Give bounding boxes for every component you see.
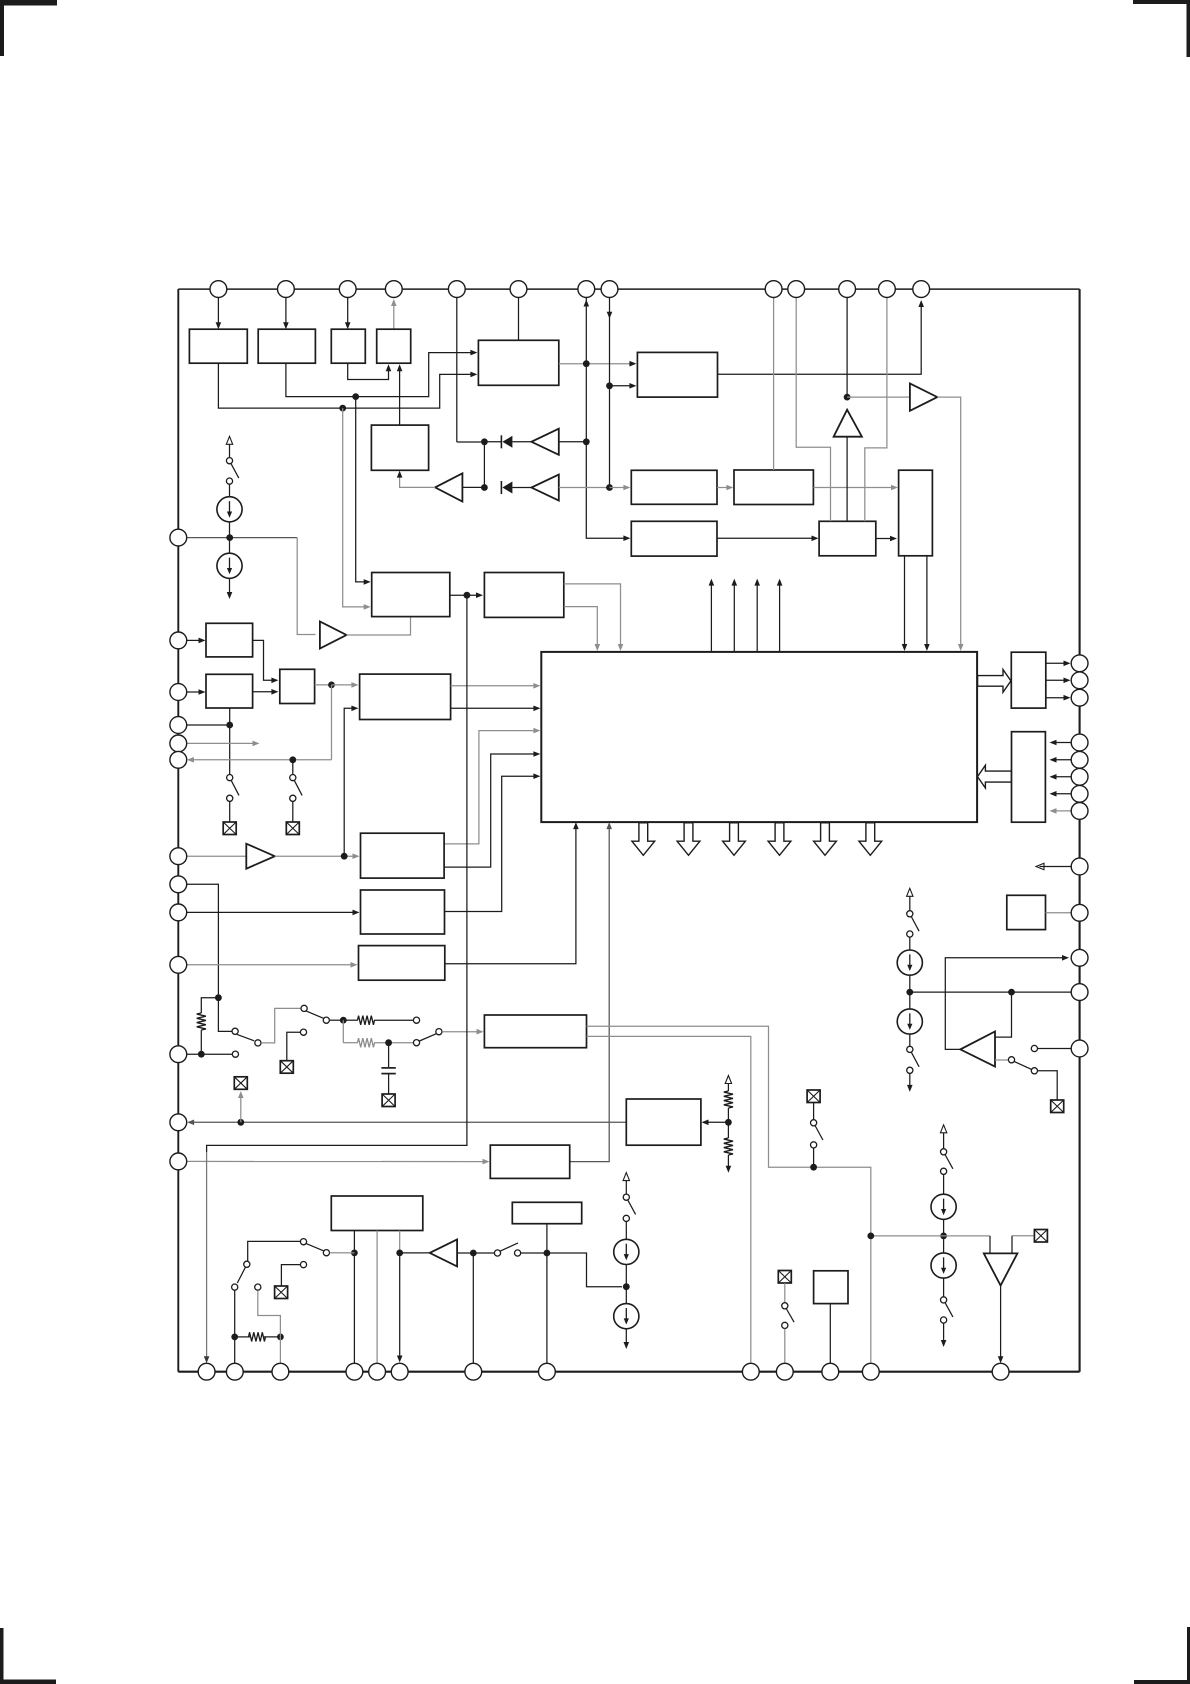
switch S8 contact b [941,1168,947,1174]
current source I8 [614,1304,639,1329]
wire resistor R2 to contact [374,1019,413,1021]
open arrow above switch S8 [943,1133,945,1149]
switch S13 contact a [811,1120,817,1126]
wire pin L6 net [191,759,332,761]
wire switch S1 to current source I1 [229,484,231,496]
switch S9 contact a [941,1297,947,1303]
open arrow above switch S1 [229,445,231,458]
switch S17 contact b [232,1284,238,1290]
wire resistor R3 to contact [374,1042,413,1044]
wire block H1 leg 2 to pin B5 [376,1231,378,1364]
wire block B7 tall to main block top 1 [904,556,906,647]
bus arrow main block to block F1 (hollow right) [978,670,1011,693]
wire pin6 to block B2 [518,298,520,341]
switch S16 throw contact [300,1239,306,1245]
wire switch S7 to terminal X3 [1038,1071,1058,1100]
wire switch S8 to current source I5 [943,1175,945,1195]
junction buffer U10 input node [470,1250,477,1257]
current source I3 [897,950,922,975]
wire block H3 to pin B11 [829,1304,831,1364]
wire block E1 output 2 to main block [444,754,536,867]
IC outline left border [177,289,179,1372]
wire pin L5 stub arrow [187,742,256,744]
block A1 [189,329,247,363]
wire block B2 output [559,363,633,365]
terminal X6 (crossed box) [280,1061,293,1074]
pin R10 [1071,904,1088,921]
block E2 [361,890,445,934]
wire divider node to block G3 [706,1121,729,1123]
pin L13 [170,1153,187,1170]
IC outline bottom rail [178,1371,1079,1373]
junction diode row upper left [481,438,488,445]
wire block F1 to pin R3 [1046,697,1067,699]
wire pin L4 to node [187,724,230,726]
IC outline top rail [178,288,1079,290]
switch S6 contact a [907,1046,913,1052]
wire resistor R6 left lead [235,1336,251,1338]
pin T7 [578,281,595,298]
switch S3 contact b [227,795,233,801]
switch S9 lever [945,1303,953,1317]
junction capacitor tap [385,1039,392,1046]
wire resistor R6 right lead [264,1336,281,1338]
terminal X5 (crossed box) [382,1094,395,1107]
wire switch S6 down arrow [909,1074,911,1086]
corner mark bottom-right [1187,1627,1190,1684]
main block hollow down arrow 4 [768,823,791,856]
diode D1 [500,435,502,448]
switch S6 lever [912,1053,920,1067]
wire block G2 output 1 (to pin B12) [587,1026,871,1363]
terminal X4 (crossed box) [1034,1230,1047,1243]
current source I5 [931,1194,956,1219]
switch S11 common [323,1017,329,1023]
terminal X3 (crossed box) [1051,1100,1064,1113]
switch S16 common [323,1250,329,1256]
wire buffer U9 output to block E1 [275,855,355,857]
wire switch S14 to current source I7 [625,1222,627,1240]
resistor R6 [249,1332,266,1341]
main block up signal 4 [779,585,781,652]
switch S8 lever [945,1155,953,1169]
switch S8 contact a [941,1149,947,1155]
wire pin R5 to block F2 [1052,759,1071,761]
wire pin L6 riser to block D4 [331,685,333,760]
junction buffer U1 at pin7 column [583,438,590,445]
block B6 [631,521,717,556]
wire switch S10 to switch S11 (jog) [261,1008,301,1043]
switch S17 alt contact [255,1284,261,1290]
junction resistor R6 right [277,1334,284,1341]
wire switch S11 to junction [330,1019,344,1021]
junction block A1 net [339,405,346,412]
switch S10 common contact [232,1028,238,1034]
pin R6 [1071,768,1088,785]
junction ladder node [340,1017,347,1024]
wire block D4 output 2 to main block [451,707,537,709]
open arrow above switch S14 [625,1181,627,1194]
wire block F1 to pin R1 [1046,662,1067,664]
junction to terminal X8 [237,1119,244,1126]
wire buffer U1 input from column [559,441,587,443]
main block up signal 3 [756,585,758,652]
wire block B8 to block B7 tall [876,538,893,540]
wire buffer U10 to junction [457,1252,473,1254]
wire inverter U6 output to block C1 bottom [347,618,411,636]
switch S15 lever [500,1243,518,1251]
wire pin1 to block A1 [217,298,219,326]
wire block D4 output 1 to main block [451,685,537,687]
diode D2 [500,481,502,494]
pin R4 [1071,734,1088,751]
wire pin L10 to block E3 [187,964,353,966]
wire block C1 long feedback to pin B1 [207,595,467,1152]
junction at pin8 column lower [606,484,613,491]
pin T11 [839,281,856,298]
wire block B7 tall to main block top 2 [926,556,928,647]
wire op-amp feedback loop to pin R11 [945,958,1065,1050]
wire pin L3 to block D2 [187,691,202,693]
junction supply rail tap [867,1233,874,1240]
wire block E2 output to main block [445,776,537,911]
wire pin L11 to contact [187,1053,233,1055]
wire node down to resistor R3 [342,1020,344,1042]
switch S12 throw b [413,1040,419,1046]
switch S6 contact b [907,1067,913,1073]
wire diode row upper [484,441,501,443]
wire block D3 output [315,684,332,686]
switch S9 contact b [941,1317,947,1323]
wire block B1 to block A4 [399,368,401,426]
open arrow above switch S5 [909,897,911,911]
wire current source I2 down arrow [229,578,231,594]
pin B4 [346,1363,363,1380]
block B3 [637,352,717,397]
junction block B2 output at column [583,360,590,367]
wire pin R4 to block F2 [1052,742,1071,744]
pin B10 [776,1363,793,1380]
switch S12 common [436,1029,442,1035]
switch S4 contact b [290,795,296,801]
wire block C2 output 1 to main block [564,584,621,647]
op-amp U7 (left-pointing) [960,1032,995,1067]
block D3 [280,669,315,703]
junction resistor tap [215,994,222,1001]
resistor R1 [197,1013,206,1030]
switch S5 lever [912,917,920,931]
pin T12 [879,281,896,298]
wire diode D1 to buffer U1 [512,441,531,443]
buffer U1 (left-pointing) [531,429,558,455]
pin T10 [788,281,805,298]
wire pin7 column [585,298,587,364]
wire switch S5 to current source I3 [909,937,911,950]
pin T3 [339,281,356,298]
vertical tie between diode rows [483,442,485,488]
pin T4 [385,281,402,298]
wire pin L9 to block E2 [187,911,355,913]
switch S17 lever [237,1268,245,1284]
block G3 [626,1099,701,1145]
wire junction to block B4 input [610,487,627,489]
switch S7 alternate contact to pin R13 [1031,1045,1037,1051]
wire capacitor C1 top [388,1043,390,1067]
switch S18 lever [787,1309,795,1322]
pin B13 [992,1363,1009,1380]
pin T9 [765,281,782,298]
pin L10 [170,956,187,973]
pin L1 [170,529,187,546]
wire pin L2 to block D1 [187,639,202,641]
main block hollow down arrow 6 [859,823,882,856]
junction divider node [725,1119,732,1126]
wire block C2 output 2 to main block [564,607,598,647]
wire pin3 to block A3 [347,298,349,326]
pin R9 [1071,858,1088,875]
current source I7 [614,1239,639,1264]
switch S14 lever [628,1200,636,1214]
wire pin R7 to block F2 [1052,793,1071,795]
buffer U2 (left-pointing) [531,475,558,501]
wire buffer U3 output to block B1 [400,474,436,487]
junction pin L4 node [226,722,233,729]
junction resistor R1 bottom [198,1051,205,1058]
resistor R2 [358,1016,375,1025]
wire to pin B1 with arrow [206,1152,208,1358]
wire pin5 elbow to diode row [457,441,481,443]
main block hollow down arrow 3 [723,823,746,856]
wire leg3 node to buffer U10 [400,1252,430,1254]
buffer U5 (right-pointing) [910,383,937,410]
main block (large) [541,652,977,822]
switch S10 throw contact [232,1051,238,1057]
pin L9 [170,904,187,921]
pin R5 [1071,751,1088,768]
junction leg1 node [351,1250,358,1257]
amplifier U4 (up-pointing) [834,410,862,437]
pin B11 [822,1363,839,1380]
wire pin2 to block A2 [285,298,287,326]
switch S13 lever [815,1126,823,1140]
switch S12 throw a [413,1017,419,1023]
wire block E3 output to main block bottom [445,826,576,964]
wire leg3 node to pin B6 [399,1253,401,1357]
block D2 [206,674,253,708]
wire current source I3 to node [909,975,911,1009]
switch S18 contact b [782,1322,788,1328]
wire pin5 input [456,298,458,443]
main block up signal 2 [733,585,735,652]
block C1 [372,573,450,617]
block B4 [631,470,717,504]
switch S14 contact b [623,1215,629,1221]
wire supply rail to comparator [871,1235,990,1237]
switch S7 lever [1014,1062,1031,1070]
wire capacitor C1 to terminal X5 [388,1074,390,1094]
wire junction to block C1 input 2 [343,408,366,607]
open arrow divider top [727,1084,729,1092]
buffer U10 (left-pointing) [430,1239,457,1266]
block G2 [484,1015,586,1048]
main block hollow down arrow 5 [814,823,837,856]
pin L2 [170,632,187,649]
pin T13 [913,281,930,298]
switch S5 contact a [907,911,913,917]
wire buffer U5 output to main block top [937,397,960,647]
terminal X7 (crossed box) [807,1090,820,1103]
wire resistor R4 to divider node [727,1108,729,1138]
wire block B6 output to block B8 [717,537,815,539]
wire pin L1 to inverter U6 [187,537,297,539]
switch S18 contact a [782,1303,788,1309]
main block hollow down arrow 2 [677,823,700,856]
wire resistor R5 down arrow [727,1155,729,1167]
block G1 [490,1145,569,1178]
current source I2 [217,553,242,578]
wire alt throw to terminal X9 [281,1265,300,1286]
wire switch S9 down arrow [943,1323,945,1341]
junction current source column [226,534,233,541]
wire current source I5 to node [943,1219,945,1253]
capacitor C1 [381,1067,395,1069]
junction pin L6 net at switch S4 [289,756,296,763]
switch S10 contact c [255,1040,261,1046]
wire node to resistor R2 [343,1019,358,1021]
wire pin7 column to block B5 [586,442,626,538]
current source I4 [897,1009,922,1034]
switch S15 contact b [515,1250,521,1256]
wire diode row lower to buffer U3 [462,486,484,488]
switch S16 alt throw contact [300,1262,306,1268]
pin B1 [198,1363,215,1380]
wire pin10 jog to block B8 top [796,298,830,522]
wire junction to block D4 [332,684,355,686]
wire amp U4 base to block B8 top [846,437,848,522]
wire junction to switch S4 [292,760,294,775]
corner mark top-left [0,0,57,6]
IC outline right border [1079,289,1081,1372]
wire block G1 output to main block bottom [570,826,610,1162]
wire switch S16 common to leg1 node [330,1252,355,1254]
wire block G2 output 2 (to pin B9) [587,1036,751,1363]
terminal X2 (crossed box) [286,822,299,835]
pin B5 [369,1363,386,1380]
wire comparator input stub 2 to terminal X4 [1011,1236,1013,1254]
block E3 [359,946,445,981]
pin R7 [1071,785,1088,802]
current source I1 [217,497,242,522]
pin L3 [170,684,187,701]
wire block B4 to block B5b [717,487,730,489]
pin B12 [862,1363,879,1380]
resistor R5 [724,1138,733,1155]
wire supply node to pin R12 [910,991,1071,993]
switch S16 lever [306,1244,323,1251]
wire current source I8 down arrow [625,1329,627,1343]
switch S3 contact a [227,775,233,781]
pin B3 [272,1363,289,1380]
wire terminal X7 to switch S13 [813,1103,815,1120]
wire junction to mid supply node [547,1253,622,1287]
block B5b [734,470,813,505]
junction diode row lower left [481,484,488,491]
bus arrow block F2 to main block (hollow left) [978,765,1012,788]
switch S14 contact a [623,1194,629,1200]
wire comparator output to pin B13 [1000,1286,1002,1358]
wire block B3 output to pin13 [718,303,922,375]
resistor R3 [358,1038,375,1047]
wire block A4 to pin4 [393,301,395,330]
inverter U6 (right-pointing) [320,622,347,649]
pin L4 [170,717,187,734]
terminal X9 (crossed box) [275,1286,288,1299]
pin B6 [391,1363,408,1380]
wire junction to block B3 input 2 [610,385,633,387]
wire current source I4 to switch S6 [909,1034,911,1046]
wire riser to inverter U6 input [297,538,315,635]
wire block A1 output net [218,363,472,408]
corner mark top-right [1133,0,1190,4]
wire diode D2 to buffer U2 [512,487,531,489]
buffer U3 (left-pointing) [435,473,462,501]
junction switch chain on sense wire [810,1164,817,1171]
pin T1 [210,281,227,298]
wire block H1 leg 1 to pin B4 [353,1231,355,1364]
wire pin L7 riser to block D4 input 2 [344,708,354,856]
pin L12 [170,1114,187,1131]
wire pin7 column continues [585,364,587,442]
wire buffer U2 input [559,487,610,489]
switch S13 contact b [811,1142,817,1148]
pin R1 [1071,655,1088,672]
wire switch S3 to terminal X1 [229,802,231,822]
corner mark bottom-left [0,1628,4,1684]
junction block C1 output [464,592,471,599]
block B1 [371,425,428,470]
wire pin L13 to block G1 [187,1160,485,1162]
block B2 PLL [478,340,558,385]
pin R13 [1071,1040,1088,1057]
wire pin11 node to buffer U5 [847,396,910,398]
wire junction to block C1 input 1 [356,397,366,582]
block H1 [331,1196,423,1231]
pin T2 [278,281,295,298]
block A2 [258,329,315,363]
junction op-amp input node [1008,989,1015,996]
switch S11 lever [306,1011,323,1018]
block D1 [206,623,253,657]
switch S5 contact b [907,931,913,937]
wire junction to switch S15 [473,1252,494,1254]
switch S4 contact a [290,775,296,781]
wire junction up to terminal X8 [240,1095,242,1122]
switch S1 contact a [226,458,232,464]
wire block F1 to pin R2 [1046,679,1067,681]
wire block D2 bottom to switch S3 [229,708,231,774]
main block up signal 1 [710,585,712,652]
switch S7 contact b [1031,1068,1037,1074]
wire junction to pin B3 [279,1337,281,1363]
block H2 [512,1202,581,1223]
block F1 [1011,652,1046,708]
pin L6 [170,751,187,768]
switch throw to terminal X6 [300,1029,306,1035]
wire block D2 to block D3 [253,691,275,693]
pin T5 [448,281,465,298]
wire switch S15 to block H2 leg [521,1252,547,1254]
wire block H1 leg 3 upper [399,1231,401,1253]
